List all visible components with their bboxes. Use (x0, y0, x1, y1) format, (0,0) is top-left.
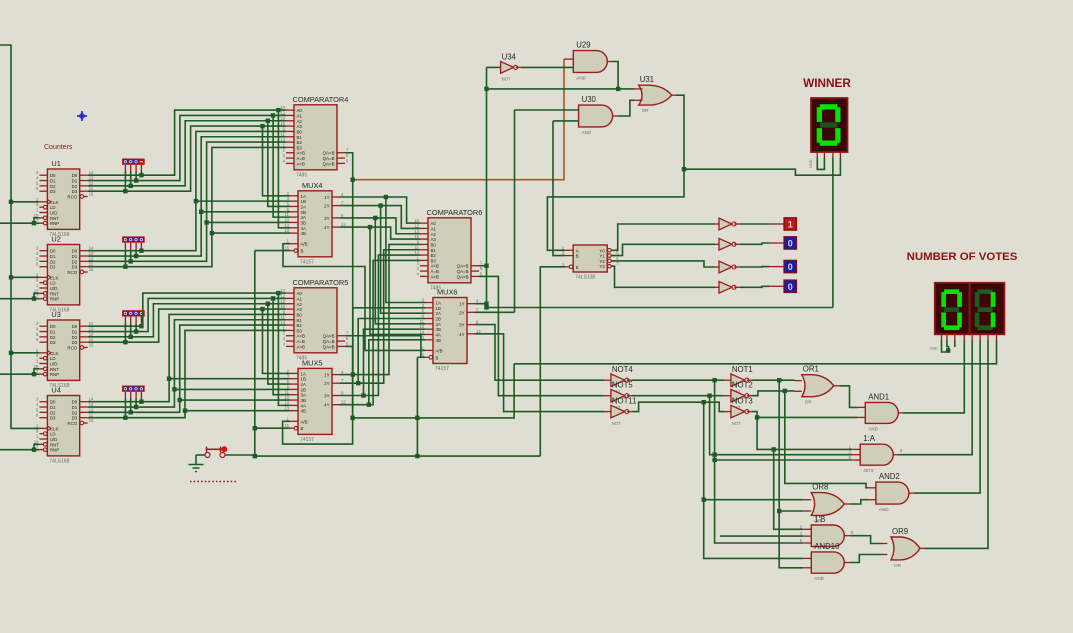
wire 74LS138 Y2 to driver NOT (611, 261, 715, 267)
svg-text:A1: A1 (431, 226, 437, 231)
svg-text:A/B: A/B (436, 348, 443, 353)
wire probe P1-3 drop (124, 165, 126, 172)
svg-text:15: 15 (89, 343, 94, 348)
svg-text:D1: D1 (50, 179, 56, 184)
wire COMPARATOR6 QA>B to NOT5 (479, 276, 604, 395)
svg-text:4073: 4073 (863, 468, 874, 473)
svg-text:D2: D2 (72, 259, 78, 264)
junction RNT/RNP U1 (32, 221, 36, 225)
wire U1 Q0 to COMPARATOR4 A0 (88, 110, 286, 175)
junction P4-1 (134, 405, 138, 409)
wire MUX5 2Y to COMPARATOR6 B1 (340, 250, 420, 383)
svg-text:1A: 1A (301, 194, 306, 199)
svg-text:B: B (301, 249, 304, 254)
junction strobe to switch line (253, 454, 257, 458)
svg-text:2A: 2A (301, 382, 306, 387)
wire COMPARATOR4 A2 tap to MUX4 2A (268, 121, 290, 207)
svg-text:D1: D1 (72, 254, 78, 259)
or gate OR8 (811, 483, 844, 524)
svg-text:1:A: 1:A (863, 434, 876, 443)
wire switch output line (225, 454, 255, 456)
junction 1B inA (772, 447, 776, 451)
wire NOT2 output to OR1 input B with jog (747, 395, 752, 397)
junction U29 out / U34 branch line (616, 87, 620, 91)
svg-text:0: 0 (788, 239, 793, 249)
svg-text:B: B (576, 254, 579, 259)
and gate AND1 (865, 392, 898, 431)
junction MUX5 2Y (356, 381, 360, 385)
svg-text:E: E (576, 265, 579, 270)
junction P2-1 (134, 254, 138, 258)
wire CLK branch to U1 (11, 201, 39, 203)
junction MUX4 2Y (378, 203, 382, 207)
junction A2 tap (266, 119, 270, 123)
svg-text:A=B: A=B (431, 269, 439, 274)
svg-text:D1: D1 (50, 254, 56, 259)
svg-text:3B: 3B (301, 220, 306, 225)
junction P3-0 (139, 324, 143, 328)
junction MUX4 1Y (384, 195, 388, 199)
svg-text:A3: A3 (297, 307, 303, 312)
wire U2 Q1 branch to MUX4 2B (201, 211, 290, 213)
or gate U31 (639, 75, 672, 113)
svg-text:4Y: 4Y (459, 332, 464, 337)
svg-text:A=B: A=B (297, 156, 305, 161)
svg-text:COMPARATOR4: COMPARATOR4 (293, 95, 349, 104)
junction NOT2 net (783, 389, 787, 393)
origin marker (77, 111, 87, 121)
junction CLK U2 (9, 275, 13, 279)
svg-text:4Y: 4Y (324, 225, 329, 230)
wire MUX5 B strobe branch (255, 427, 290, 429)
svg-text:D3: D3 (50, 340, 56, 345)
counter U2 74LS168 (34, 235, 94, 314)
svg-text:D3: D3 (50, 189, 56, 194)
svg-text:A1: A1 (297, 113, 303, 118)
wire U2 Q3 to COMPARATOR4 B3 (88, 147, 286, 266)
junction P4-2 (129, 410, 133, 414)
junction comparator5 A1 tap (271, 296, 275, 300)
wire CLK branch to U2 (11, 276, 39, 278)
wire driver 2 output to state box (734, 243, 740, 245)
inverter NOT1 (731, 365, 753, 395)
wire U4 Q2 to COMPARATOR5 B2 (88, 325, 286, 412)
wire probe P1-1 drop (135, 165, 137, 172)
svg-text:NOT2: NOT2 (732, 380, 753, 389)
junction A3 tap (260, 124, 264, 128)
wire 1:A output to display pin5 (893, 454, 898, 456)
svg-text:RCO: RCO (67, 270, 77, 275)
wire U3 Q1 to COMPARATOR5 A1 (88, 298, 286, 331)
wire 74LS138 Y1 to driver NOT (611, 244, 715, 255)
multiplexer MUX5 74157 (284, 358, 346, 443)
inverter NOT2 (731, 380, 753, 410)
wire COMPARATOR4 A1 tap to MUX4 3A (273, 115, 290, 217)
svg-text:2B: 2B (301, 210, 306, 215)
svg-text:A>B: A>B (297, 344, 305, 349)
junction 1:A inC (712, 458, 716, 462)
svg-text:D0: D0 (72, 249, 78, 254)
svg-text:A>B: A>B (297, 161, 305, 166)
inverter NOT5 (611, 380, 633, 410)
wire NUMBER display pins (941, 334, 943, 340)
svg-text:U34: U34 (502, 53, 517, 62)
svg-text:OR8: OR8 (812, 483, 828, 492)
svg-text:A0: A0 (431, 221, 437, 226)
svg-text:QA>B: QA>B (323, 344, 335, 349)
svg-text:4B: 4B (436, 338, 441, 343)
wire COMPARATOR5 QA>B output net (283, 346, 353, 444)
wire U4 Q0 branch to MUX5 1B (169, 378, 290, 380)
wire NOT3 net branch to 1'B input A (774, 449, 804, 529)
svg-text:74157: 74157 (300, 259, 314, 265)
driver inverter NOT state 2 (719, 238, 736, 250)
junction MUX6 1Y (484, 302, 488, 306)
junction gnd loop (946, 348, 950, 352)
wire U1 Q3 to COMPARATOR4 A3 (88, 126, 286, 191)
and gate U29 (573, 41, 607, 81)
svg-text:AND2: AND2 (879, 472, 900, 481)
svg-text:A2: A2 (297, 302, 303, 307)
or gate OR1 (802, 365, 834, 405)
wire branch to OR8 input A (704, 499, 804, 501)
svg-text:D2: D2 (50, 410, 56, 415)
driver inverter NOT state 4 (719, 281, 736, 293)
junction 1:A inB cross (712, 453, 716, 457)
svg-text:D0: D0 (72, 400, 78, 405)
svg-text:AND1: AND1 (868, 392, 889, 401)
wire U3 Q3 to COMPARATOR5 A3 (88, 309, 286, 342)
svg-text:CLK: CLK (50, 200, 59, 205)
wire switch left to ground (196, 454, 205, 456)
junction A0 tap (276, 108, 280, 112)
svg-text:D0: D0 (72, 324, 78, 329)
svg-text:D0: D0 (50, 249, 56, 254)
svg-text:3B: 3B (436, 327, 441, 332)
svg-text:D3: D3 (50, 265, 56, 270)
svg-text:74157: 74157 (435, 366, 449, 372)
svg-text:RNT: RNT (50, 216, 59, 221)
wire OR1 output to AND1 input A (834, 385, 840, 387)
wire probe P2-0 drop (140, 243, 142, 250)
comparator COMPARATOR6 7485 (414, 208, 483, 291)
svg-text:LD: LD (50, 205, 56, 210)
svg-text:2B: 2B (436, 316, 441, 321)
svg-text:A2: A2 (431, 232, 437, 237)
svg-text:3Y: 3Y (324, 394, 329, 399)
logic probes P1 (U1 outputs) (122, 159, 145, 165)
wire RNT loop U1 (34, 218, 39, 223)
junction MUX5 3Y (361, 393, 365, 397)
wire NOT3 output to AND1 input B and 1:A (747, 411, 752, 413)
svg-text:OR: OR (805, 400, 813, 405)
logic probes P3 (U3 outputs) (122, 310, 145, 316)
svg-text:1A: 1A (436, 301, 441, 306)
wire MUX4 2Y branch to MUX6 2A (381, 206, 425, 314)
wire MUX5 3Y to COMPARATOR6 B2 (340, 255, 420, 395)
junction MUX5 1B (167, 377, 171, 381)
wire U29 output to U31 input A (607, 61, 612, 63)
svg-text:U4: U4 (51, 386, 60, 395)
svg-text:Y0: Y0 (599, 248, 605, 253)
junction NOT11 net (702, 400, 706, 404)
comparator COMPARATOR5 7485 (280, 278, 349, 362)
counter U1 74LS168 (34, 159, 94, 238)
wire COMPARATOR4 A3 tap to MUX4 1A (263, 126, 291, 196)
svg-text:3B: 3B (301, 398, 306, 403)
svg-text:QA<B: QA<B (323, 334, 335, 339)
junction MUX5 2B (172, 387, 176, 391)
svg-text:1B: 1B (301, 199, 306, 204)
svg-text:D2: D2 (50, 335, 56, 340)
logic state box 0 row 3 (784, 260, 797, 273)
svg-text:4A: 4A (301, 403, 306, 408)
wire probe P4-3 drop (124, 392, 126, 399)
svg-text:D2: D2 (50, 259, 56, 264)
wire probe P2-1 drop (135, 243, 137, 250)
wire U4 Q3 branch to MUX5 4B (185, 410, 290, 412)
clock chevron U4 (47, 426, 51, 431)
svg-text:0: 0 (788, 282, 793, 292)
svg-text:Y2: Y2 (599, 259, 605, 264)
svg-text:NOT: NOT (612, 421, 621, 426)
svg-text:QA=B: QA=B (457, 269, 469, 274)
svg-text:D3: D3 (72, 265, 78, 270)
junction CLK U1 (9, 200, 13, 204)
junction RNT/RNP U2 (32, 296, 36, 300)
svg-text:RNP: RNP (50, 448, 59, 453)
wire vertical 553 to 74LS138 B pin (553, 121, 565, 256)
inverter NOT11 (611, 396, 637, 426)
wire MUX6 B strobe to switch net vertical (417, 356, 425, 358)
junction P2-0 (139, 249, 143, 253)
wire 74LS138 Y0 to driver NOT (611, 224, 715, 250)
wire NOT3 net down to 1:A input A (757, 417, 852, 449)
inverter NOT4 (611, 365, 633, 395)
junction P1-3 (123, 189, 127, 193)
svg-text:D1: D1 (72, 179, 78, 184)
junction CLK U3 (9, 351, 13, 355)
wire vertical 514.5 from MUX6 2Y up to U30 (514, 110, 516, 312)
multiplexer MUX4 74157 (284, 181, 346, 265)
svg-text:A0: A0 (297, 291, 303, 296)
wire probe P3-2 drop (130, 317, 132, 324)
junction P1-2 (129, 184, 133, 188)
wire MUX5 3Y branch to MUX6 3B (364, 329, 426, 395)
wire U30 output to U31 input B (613, 115, 617, 117)
svg-text:2Y: 2Y (459, 310, 464, 315)
wire U1 Q2 to COMPARATOR4 A2 (88, 121, 286, 186)
svg-text:1Y: 1Y (459, 302, 464, 307)
svg-text:4Y: 4Y (324, 403, 329, 408)
wire U3 Q2 to COMPARATOR5 A2 (88, 304, 286, 337)
wire comparator5 QA<B stub to vertical (345, 336, 421, 358)
svg-text:A=B: A=B (297, 339, 305, 344)
svg-text:A: A (576, 248, 579, 253)
svg-text:1B: 1B (436, 306, 441, 311)
junction brown/green (351, 178, 355, 182)
svg-text:U31: U31 (640, 75, 654, 84)
junction RNT/RNP U4 (32, 447, 36, 451)
svg-text:4B: 4B (301, 231, 306, 236)
wire U4 Q0 to COMPARATOR5 B0 (88, 314, 286, 401)
svg-text:AND: AND (868, 426, 878, 431)
svg-text:NUMBER OF VOTES: NUMBER OF VOTES (907, 251, 1018, 263)
svg-text:D3: D3 (72, 189, 78, 194)
wire NOT11 output to NOT3 input with jog (627, 411, 632, 413)
wire MUX6 2Y up to U30 (514.5 vertical) (475, 311, 515, 313)
svg-text:NOT: NOT (732, 421, 741, 426)
and gate AND10 (811, 542, 844, 581)
junction MUX4 2B (199, 210, 203, 214)
wire U2 Q2 branch to MUX4 3B (207, 221, 290, 223)
svg-text:B1: B1 (431, 248, 437, 253)
junction MUX4 3Y (373, 216, 377, 220)
svg-text:B0: B0 (297, 312, 303, 317)
driver inverter NOT state 3 (719, 261, 736, 273)
wire NOT11 net vertical to OR8 and AND10 (704, 402, 804, 558)
wire RNP U4 from left edge (0, 449, 39, 451)
svg-text:RCO: RCO (67, 421, 77, 426)
svg-text:2A: 2A (301, 204, 306, 209)
svg-text:QA<B: QA<B (457, 264, 469, 269)
wire COMPARATOR5 A2 tap to MUX5 2A (268, 304, 290, 384)
wire comparator5 output to display pin8 line (353, 364, 514, 418)
svg-text:NOT1: NOT1 (732, 365, 753, 374)
svg-text:1A: 1A (301, 371, 306, 376)
wire COMPARATOR4 A0 tap to MUX4 4A (278, 110, 290, 228)
svg-text:D2: D2 (72, 184, 78, 189)
junction P2-2 (129, 259, 133, 263)
svg-text:AND: AND (582, 130, 592, 135)
dotted annotation line (190, 481, 237, 483)
svg-text:D2: D2 (72, 410, 78, 415)
clock chevron U1 (47, 199, 51, 204)
svg-text:1: 1 (788, 220, 793, 230)
svg-text:MUX5: MUX5 (302, 358, 323, 367)
wire COMPARATOR6 QA<B to 486.5 vertical (479, 265, 487, 267)
svg-text:NOT11: NOT11 (612, 396, 637, 405)
svg-text:3A: 3A (301, 393, 306, 398)
svg-text:RNT: RNT (50, 367, 59, 372)
svg-text:QA=B: QA=B (323, 339, 335, 344)
junction P2-3 (123, 264, 127, 268)
wire NUMBER gnd loop (942, 341, 949, 353)
svg-text:D1: D1 (50, 330, 56, 335)
svg-text:RNP: RNP (50, 372, 59, 377)
junction MUX5 4Y (367, 403, 371, 407)
junction NOT4 net (712, 378, 716, 382)
wire RNT loop U2 (34, 293, 39, 298)
junction on 486.5 vertical (484, 87, 488, 91)
svg-text:OR9: OR9 (892, 527, 908, 536)
logic probes P2 (U2 outputs) (122, 236, 145, 242)
wire RNP U1 from left edge (0, 222, 39, 224)
wire NOT2 net vertical to AND2 input A (785, 391, 868, 488)
wire U2 Q0 branch to MUX4 1B (196, 200, 290, 202)
wire AND10 output to OR9 input B (844, 562, 850, 564)
7-segment display WINNER (811, 98, 848, 152)
svg-text:MUX6: MUX6 (437, 288, 458, 297)
svg-text:B: B (301, 426, 304, 431)
svg-text:CLK: CLK (50, 275, 59, 280)
svg-text:U/D: U/D (50, 362, 58, 367)
wire NOT4 output to NOT1 input (627, 379, 632, 381)
svg-text:A/B: A/B (301, 242, 308, 247)
logic state box 1 row 1 (784, 218, 797, 231)
wire COMPARATOR4 QA<B output down to brown junction (345, 153, 353, 418)
wire probe P3-0 drop (140, 317, 142, 324)
svg-text:U2: U2 (51, 235, 60, 244)
svg-text:D1: D1 (72, 330, 78, 335)
wire WINNER display pins (816, 152, 818, 158)
wire U2 Q0 to COMPARATOR4 B0 (88, 131, 286, 250)
wire probe P1-2 drop (130, 165, 132, 172)
junction MUX4 3B (204, 220, 208, 224)
svg-text:D1: D1 (72, 405, 78, 410)
svg-text:NOT5: NOT5 (612, 380, 633, 389)
junction NOT3 net (755, 415, 759, 419)
svg-text:1Y: 1Y (324, 373, 329, 378)
junction winner net left end (484, 305, 488, 309)
wire MUX4 select net to MUX6 select (283, 244, 425, 351)
wire AND1 output to display pin4 (898, 412, 903, 414)
wire MUX6 1Y to winner net (475, 303, 487, 305)
wire probe P1-0 drop (140, 165, 142, 172)
wire MUX4 B strobe net down to switch line (255, 250, 290, 252)
svg-text:Counters: Counters (44, 144, 73, 151)
svg-text:QA<B: QA<B (323, 151, 335, 156)
svg-text:MUX4: MUX4 (302, 181, 323, 190)
junction NOT5 net (707, 394, 711, 398)
svg-text:A/B: A/B (301, 419, 308, 424)
svg-text:QA>B: QA>B (323, 161, 335, 166)
and gate AND2 (876, 472, 909, 512)
svg-text:2Y: 2Y (324, 381, 329, 386)
wire probe P3-1 drop (135, 317, 137, 324)
svg-text:A<B: A<B (297, 151, 305, 156)
clock chevron U3 (47, 350, 51, 355)
wire long horizontal NUMBER display pin8 net (514, 341, 996, 364)
junction P1-0 (139, 173, 143, 177)
wire MUX4 4Y branch to MUX6 4A (370, 227, 425, 334)
svg-text:2Y: 2Y (324, 204, 329, 209)
junction NOT1 net (777, 378, 781, 382)
svg-text:OR: OR (894, 563, 902, 568)
wire MUX5 2Y branch to MUX6 2B (358, 318, 425, 383)
wire MUX5 4Y to COMPARATOR6 B3 (340, 260, 420, 404)
svg-text:A>B: A>B (431, 274, 439, 279)
comparator COMPARATOR4 7485 (280, 95, 349, 179)
logic probes P4 (U4 outputs) (122, 386, 145, 392)
svg-text:RCO: RCO (67, 346, 77, 351)
counter U4 74LS168 (34, 386, 94, 465)
junction P3-3 (123, 340, 127, 344)
svg-text:15: 15 (89, 192, 94, 197)
svg-text:U1: U1 (51, 159, 60, 168)
wire probe P3-3 drop (124, 317, 126, 324)
svg-text:LD: LD (50, 356, 56, 361)
wire RNP U2 from left edge (0, 298, 39, 300)
and gate 1'B (811, 515, 844, 547)
svg-text:Y3: Y3 (599, 264, 605, 269)
svg-text:3Y: 3Y (324, 216, 329, 221)
svg-text:U30: U30 (582, 95, 597, 104)
clock chevron U2 (47, 275, 51, 280)
wire OR9 output to display pin7 (919, 547, 925, 549)
wire MUX4 4Y to COMPARATOR6 A3 (340, 227, 420, 239)
wire U4 Q1 to COMPARATOR5 B1 (88, 320, 286, 407)
